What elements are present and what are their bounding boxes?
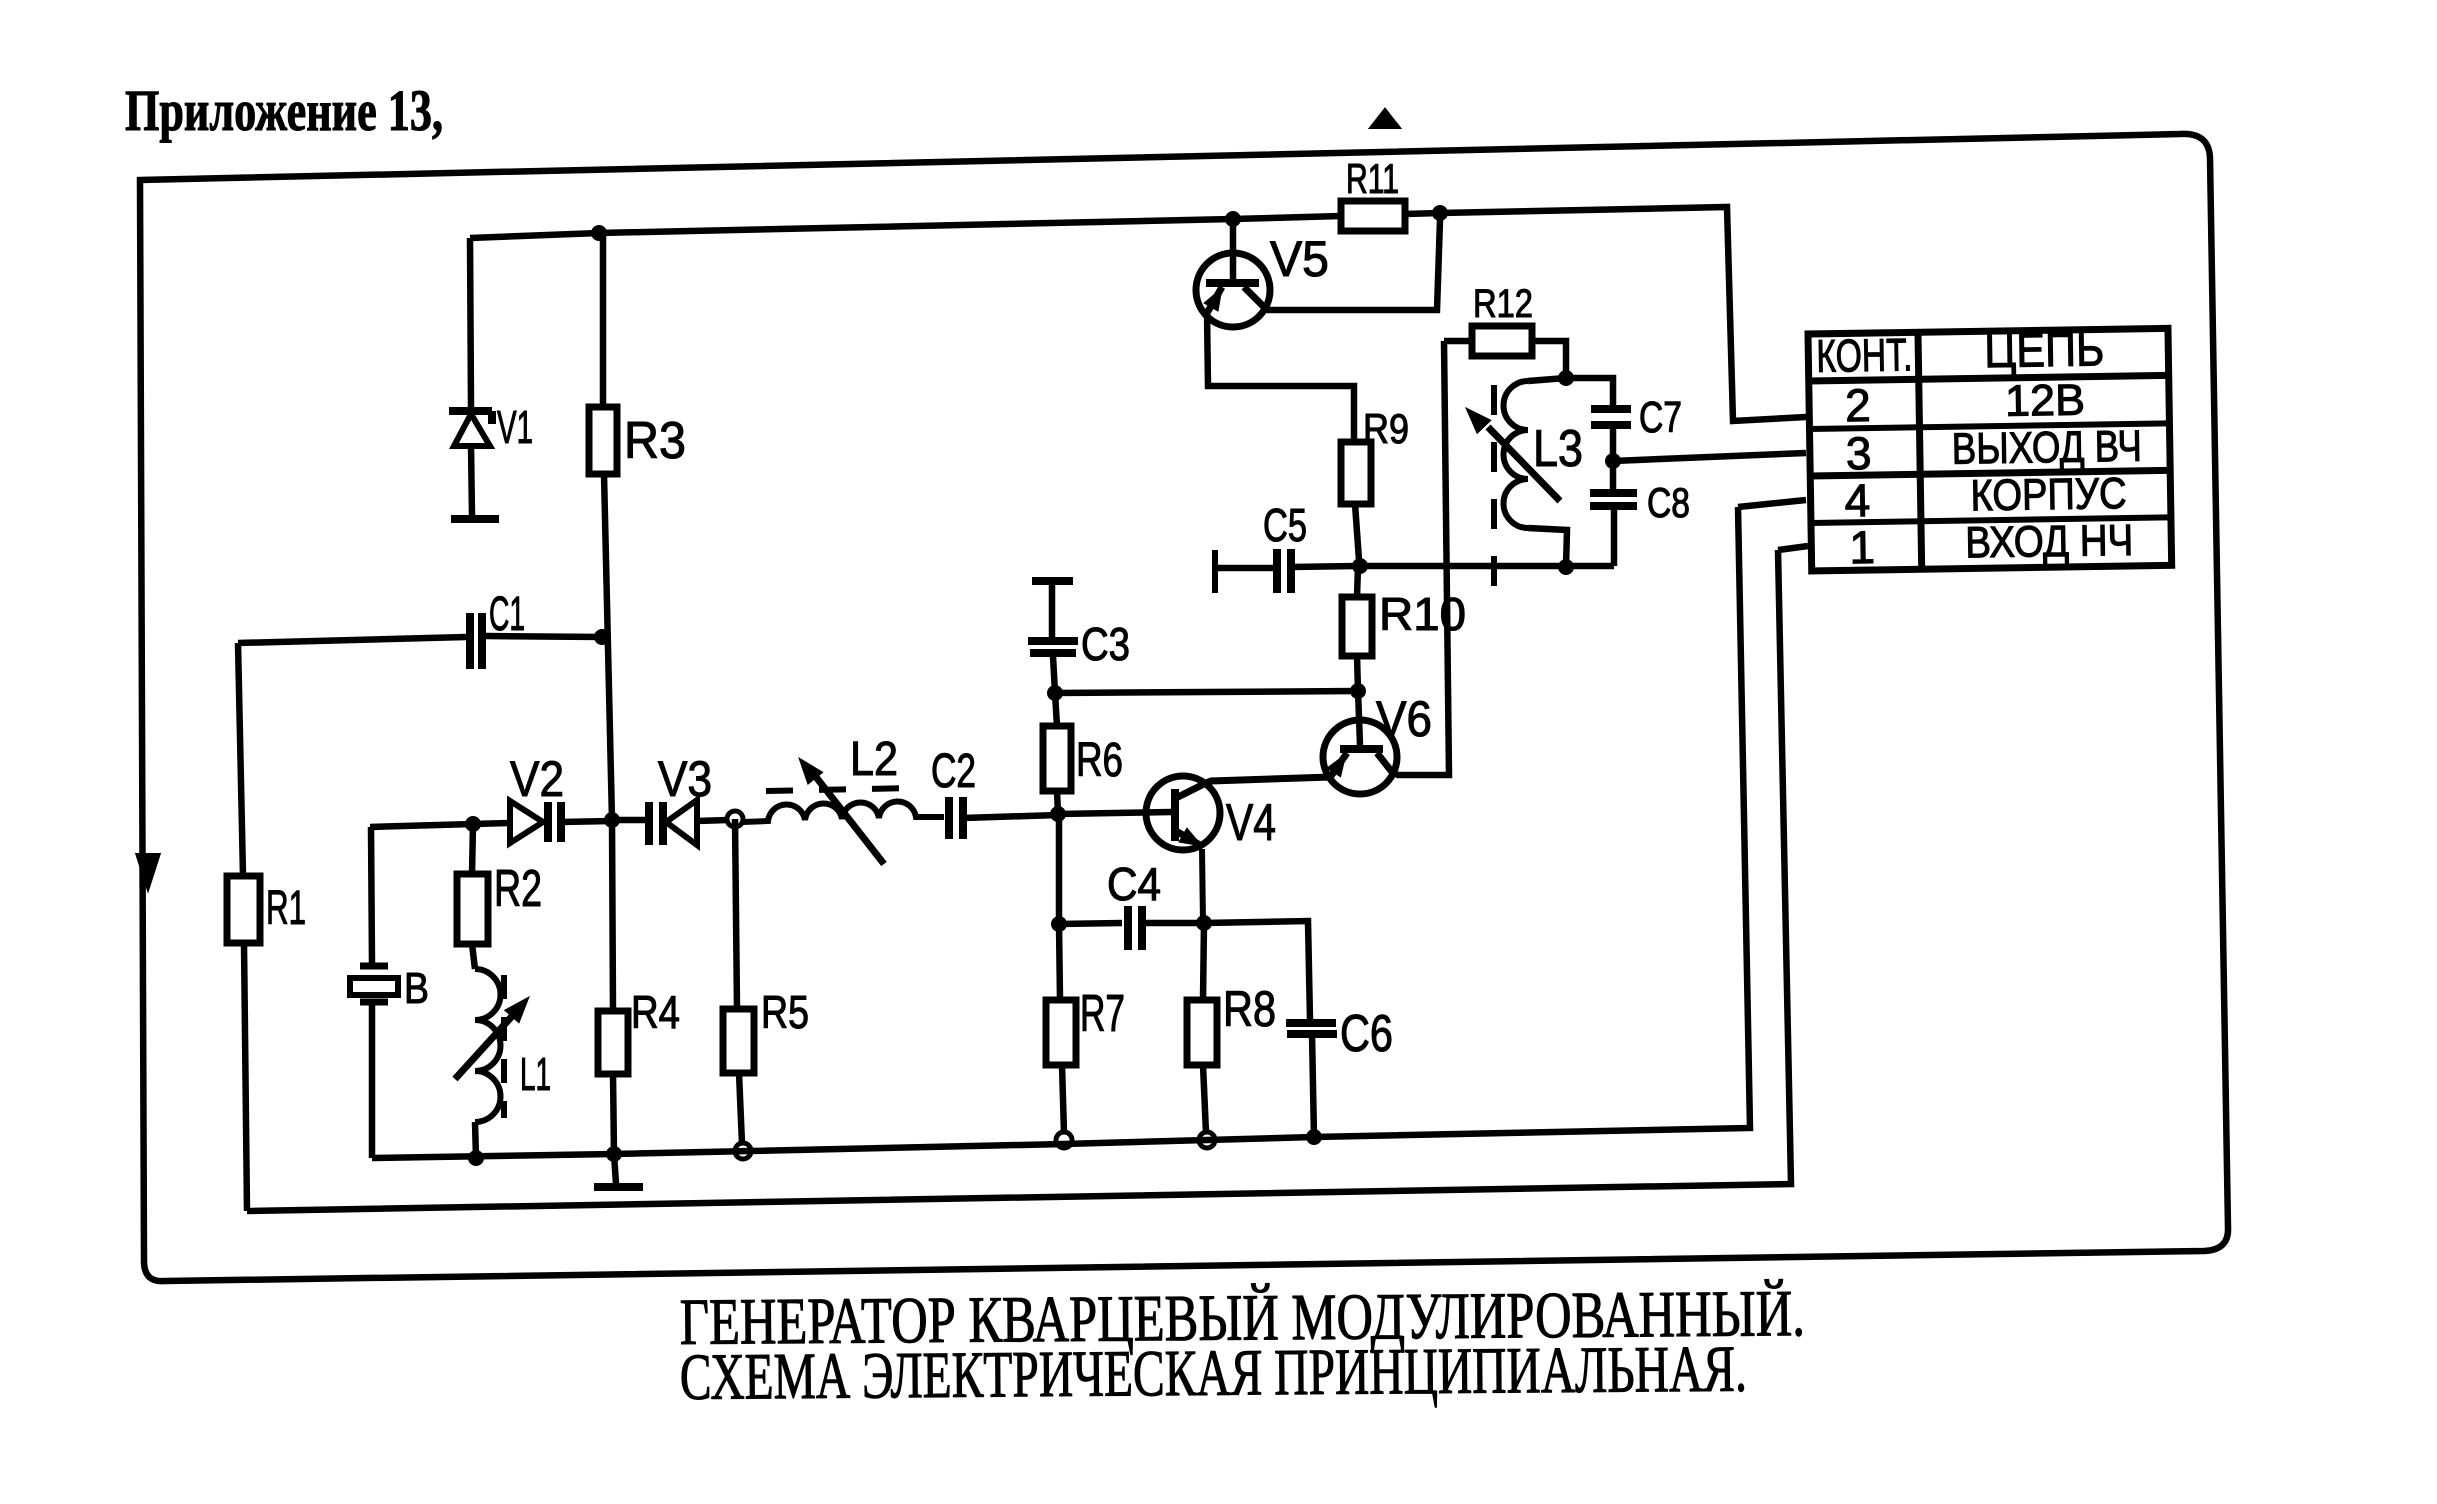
svg-text:V3: V3 (658, 751, 712, 807)
svg-text:КОНТ.: КОНТ. (1816, 328, 1913, 382)
transistor V5 (1230, 219, 1237, 283)
svg-text:C4: C4 (1107, 858, 1161, 910)
svg-text:Приложение 13,: Приложение 13, (125, 78, 443, 143)
wire: V6 collector to tank (1392, 341, 1449, 775)
wire: input riser to pin 1 (1778, 546, 1808, 550)
node: rail junction at R3 top (591, 225, 607, 241)
resistor R3 (600, 233, 607, 407)
svg-text:В: В (404, 964, 429, 1013)
svg-text:L2: L2 (850, 733, 898, 786)
svg-text:КОРПУС: КОРПУС (1970, 469, 2127, 520)
svg-text:ВХОД НЧ: ВХОД НЧ (1965, 516, 2134, 568)
svg-text:СХЕМА ЭЛЕКТРИЧЕСКАЯ ПРИНЦИПИАЛ: СХЕМА ЭЛЕКТРИЧЕСКАЯ ПРИНЦИПИАЛЬНАЯ. (680, 1333, 1748, 1414)
svg-text:L3: L3 (1533, 420, 1583, 478)
svg-text:C1: C1 (489, 588, 525, 641)
resistor R7 (1059, 924, 1060, 1000)
svg-text:V6: V6 (1376, 691, 1432, 747)
arrow mark on left border (139, 856, 157, 884)
node: C1 right junction (594, 629, 610, 645)
capacitor C6 (1286, 1019, 1336, 1027)
resistor R6 (1055, 693, 1057, 726)
node: rail junction at R11 right (1432, 205, 1448, 221)
connector table XS1 (1808, 322, 2172, 574)
node: L1/B bottom junction (468, 1150, 484, 1166)
capacitor C3 (1032, 577, 1073, 585)
node: R8 bottom terminal (1199, 1132, 1215, 1148)
wire: output node to pin 3 (1613, 453, 1806, 461)
svg-text:C5: C5 (1263, 499, 1307, 551)
variable inductor L1 (475, 969, 501, 1122)
svg-text:C6: C6 (1340, 1005, 1393, 1063)
resistor R12 (1444, 338, 1472, 345)
svg-text:R6: R6 (1076, 734, 1123, 787)
node: R4 bottom junction (606, 1146, 622, 1162)
svg-text:V1: V1 (497, 401, 533, 453)
node: C7/C8 output node (1605, 453, 1621, 469)
wire: input net rail (R1 to pin 1) (247, 550, 1791, 1211)
wire: tank top to C7 (1566, 378, 1613, 406)
node: V6 base node (1350, 683, 1366, 699)
svg-text:R8: R8 (1223, 981, 1276, 1037)
node: C6 bottom junction (1306, 1129, 1322, 1145)
capacitor C5 (1212, 550, 1218, 593)
wire: V5 emitter to R9 (1207, 313, 1354, 442)
svg-text:R4: R4 (631, 986, 680, 1038)
node: R5 bottom terminal (735, 1143, 751, 1159)
node: V2 anode junction (465, 816, 481, 832)
svg-text:V5: V5 (1270, 231, 1329, 287)
node: R7 bottom terminal (1056, 1132, 1072, 1148)
node: R9/R10/C5 node (1352, 558, 1368, 574)
svg-text:R3: R3 (624, 412, 686, 470)
wire: base wire into V4 (1058, 812, 1172, 814)
node: tank top junction (1558, 370, 1574, 386)
wire: emitter node to C6 (1204, 921, 1310, 1020)
resistor R4 (612, 820, 613, 1011)
node: V3 cathode terminal (727, 811, 743, 827)
resistor R1 (238, 643, 243, 876)
svg-text:12В: 12В (2005, 376, 2086, 426)
node: C3/R6 junction (1047, 685, 1063, 701)
svg-text:C3: C3 (1081, 618, 1130, 670)
svg-text:ВЫХОД ВЧ: ВЫХОД ВЧ (1951, 422, 2142, 474)
svg-text:R5: R5 (761, 986, 809, 1038)
svg-text:3: 3 (1845, 427, 1871, 479)
svg-text:R10: R10 (1379, 588, 1466, 640)
svg-text:4: 4 (1844, 474, 1870, 526)
svg-text:R11: R11 (1346, 155, 1399, 202)
resistor R10 (1357, 566, 1358, 597)
resistor R11 (1341, 201, 1405, 231)
svg-text:2: 2 (1845, 379, 1871, 431)
resistor R5 (735, 819, 737, 1009)
node: V2/V3 junction (604, 812, 620, 828)
svg-text:V4: V4 (1226, 794, 1276, 852)
resistor R8 (1203, 923, 1204, 1000)
wire: V5 collector to R11 right node (1264, 220, 1440, 310)
svg-text:ЦЕПЬ: ЦЕПЬ (1984, 323, 2105, 378)
svg-text:R2: R2 (494, 860, 542, 918)
variable inductor L3 (1528, 378, 1566, 381)
svg-text:R7: R7 (1080, 985, 1125, 1043)
svg-text:R12: R12 (1473, 282, 1533, 326)
wire: node from B top to V2 anode (370, 824, 473, 827)
wire: +12V rail from V1 corner to connector pin 2 (470, 216, 1341, 238)
svg-text:1: 1 (1849, 521, 1875, 573)
transistor V4 (1146, 776, 1220, 850)
capacitor C8 (1610, 461, 1617, 490)
wire: node A to tank bottom (1360, 563, 1614, 570)
svg-text:C7: C7 (1639, 393, 1682, 442)
variable inductor L2 (743, 801, 944, 822)
capacitor C2 (945, 797, 953, 839)
svg-text:C2: C2 (931, 745, 976, 798)
ground (614, 1154, 616, 1184)
node: V4 base node (R6/R7 tap) (1050, 806, 1066, 822)
node: tank bottom junction (1558, 559, 1574, 575)
resistor R2 (472, 824, 473, 874)
node: rail junction at V5 base (1225, 211, 1241, 227)
svg-text:L1: L1 (520, 1048, 551, 1100)
svg-text:R1: R1 (266, 882, 306, 935)
svg-text:V2: V2 (510, 751, 564, 807)
zener diode V1 (470, 238, 471, 407)
transistor V6 (1358, 691, 1360, 745)
svg-text:C8: C8 (1647, 479, 1690, 526)
svg-text:R9: R9 (1363, 405, 1409, 452)
capacitor C1 (238, 637, 466, 643)
varicap diode V3 (612, 817, 646, 824)
capacitor C4 (1056, 814, 1063, 924)
capacitor C7 (1591, 405, 1631, 413)
artifact triangle above border (1374, 112, 1396, 126)
wire: ground rail riser to pin 4 (1738, 500, 1806, 507)
quartz resonator B (360, 963, 388, 970)
varicap diode V2 (473, 823, 510, 824)
resistor R9 (1341, 442, 1371, 504)
wire: C3 node to V6 base node (1055, 691, 1358, 693)
wire: ground rail (372, 507, 1750, 1158)
